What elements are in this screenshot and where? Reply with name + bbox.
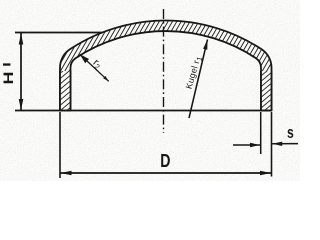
arrowhead r2 tail (103, 76, 109, 81)
dimension line H1 (20, 33, 22, 111)
leader line Kugel r1 (crown radius) (189, 40, 208, 119)
leader line r2 (knuckle radius) (80, 54, 109, 81)
D extension line left (59, 112, 61, 178)
wall hatching lower sections (60, 21, 272, 111)
D extension line right (271, 112, 273, 177)
arrowhead D right (260, 171, 271, 176)
arrowhead H1 top (19, 34, 24, 45)
label H1 subscript stroke (3, 63, 10, 65)
arrowhead H1 bottom (19, 99, 24, 110)
scan noise overlay (0, 0, 1, 1)
H1 upper extension line (15, 32, 102, 34)
s dimension line left segment (233, 144, 260, 146)
s inner extension line (260, 112, 262, 154)
arrowhead r2 at knuckle (80, 54, 89, 63)
dished head wall section (hatched) (60, 21, 272, 111)
arrowhead s pointing left (272, 142, 282, 146)
arrowhead s pointing right (250, 143, 260, 147)
arrowhead D left (61, 171, 72, 176)
arrowhead Kugel r1 (203, 40, 207, 50)
dimension line D (60, 172, 272, 174)
vertical centerline (dash-dot) (163, 9, 165, 133)
bottom tangent line / H1 lower extension (15, 110, 272, 112)
s dimension line right segment (272, 143, 298, 145)
